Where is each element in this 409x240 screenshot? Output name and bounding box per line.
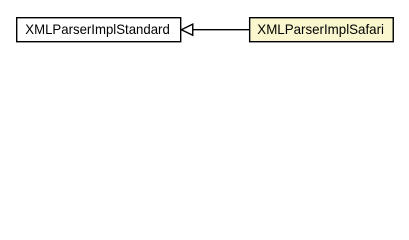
- svg-text:XMLParserImplSafari: XMLParserImplSafari: [257, 21, 384, 37]
- class box XMLParserImplStandard: [17, 18, 181, 42]
- wire (inheritance connector line): [193, 29, 249, 31]
- generalization arrowhead (hollow triangle pointing to XMLParserImplStandard): [181, 24, 192, 35]
- class box XMLParserImplSafari (highlighted current class): [250, 18, 394, 42]
- svg-text:XMLParserImplStandard: XMLParserImplStandard: [25, 21, 170, 37]
